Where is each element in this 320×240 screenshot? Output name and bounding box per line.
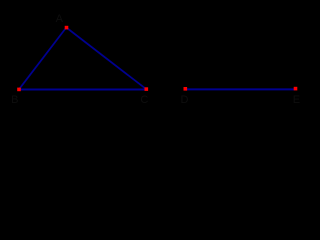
wire segment AC (triangle right edge) [66, 28, 146, 90]
point D [184, 87, 188, 91]
point A [65, 26, 69, 30]
svg-text:A: A [56, 13, 64, 25]
point C [145, 87, 149, 91]
svg-text:E: E [293, 94, 300, 106]
wire segment BC (triangle bottom edge) [19, 89, 146, 91]
svg-text:D: D [181, 94, 189, 106]
point B [17, 88, 21, 92]
svg-text:C: C [140, 94, 148, 106]
wire segment AB (triangle left edge) [19, 28, 66, 90]
wire segment DE [185, 88, 295, 90]
svg-text:B: B [11, 94, 18, 106]
point E [294, 87, 298, 91]
